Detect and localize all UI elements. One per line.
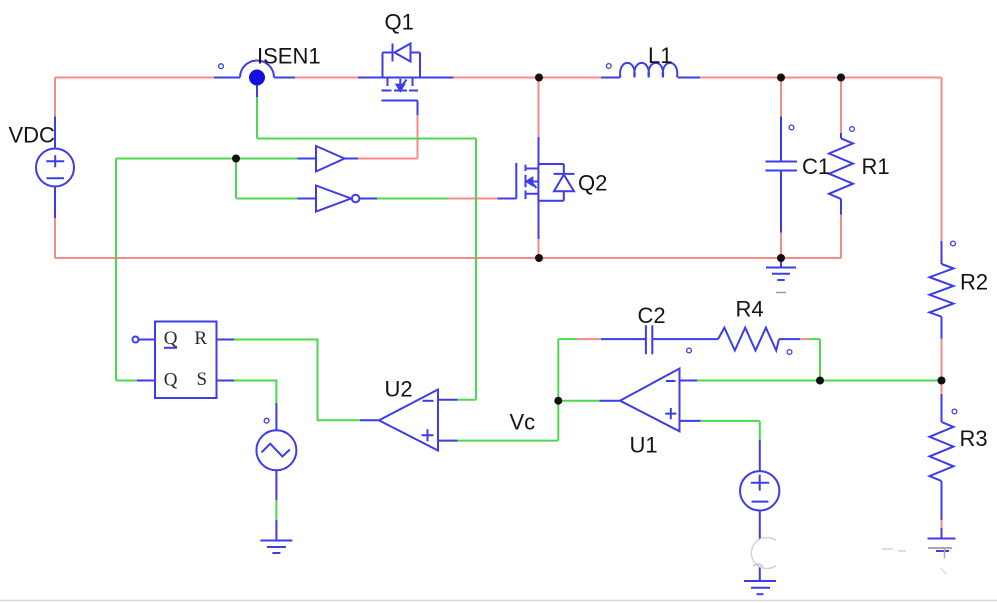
svg-text:Q2: Q2 bbox=[578, 171, 607, 196]
wire inverter input lead bbox=[298, 198, 317, 200]
wire top bus Q1 to L1 red bbox=[454, 77, 602, 79]
svg-text:R: R bbox=[194, 328, 207, 349]
svg-text:Q: Q bbox=[164, 328, 178, 349]
wire clock bottom lead bbox=[275, 470, 277, 500]
wire junction down green bbox=[235, 159, 237, 199]
capacitor C1 bbox=[766, 125, 798, 170]
wire Q2 gate lead bbox=[497, 198, 516, 200]
clock source bbox=[256, 418, 296, 470]
op-amp U1 bbox=[620, 369, 680, 432]
voltage source VDC bbox=[36, 149, 74, 187]
wire VDC top red bbox=[54, 78, 56, 117]
junction dot bottom bus C1 bbox=[777, 254, 785, 262]
wire clock to ground lead bbox=[275, 520, 277, 537]
wire R3 top lead bbox=[941, 394, 943, 422]
svg-text:U1: U1 bbox=[630, 433, 658, 458]
wire Q2 source lead bbox=[538, 201, 540, 239]
wire ISEN1 right lead bbox=[274, 77, 295, 79]
wire inverter output red bbox=[448, 198, 497, 200]
wire Q2 drain red bbox=[538, 78, 540, 138]
wire latch S lead bbox=[217, 380, 235, 382]
junction dot bottom bus Q2 bbox=[535, 254, 543, 262]
wire inverter output green bbox=[377, 198, 448, 200]
wire U1 plus green bbox=[701, 420, 760, 422]
wire C2 left lead bbox=[601, 338, 646, 340]
ground C1 bbox=[766, 258, 796, 280]
svg-text:C1: C1 bbox=[802, 154, 830, 179]
svg-text:R2: R2 bbox=[960, 270, 988, 295]
wire clock top lead bbox=[275, 403, 277, 430]
wire to latch Q pin green bbox=[116, 380, 137, 382]
inverter gate bbox=[316, 186, 359, 212]
wire VDC bottom lead bbox=[54, 187, 56, 219]
ground clock bbox=[260, 537, 292, 553]
wire R1 bottom lead bbox=[840, 199, 842, 215]
buffer gate bbox=[316, 146, 345, 172]
wire Q2 drain lead bbox=[538, 137, 540, 164]
voltage source U1 bias bbox=[740, 471, 779, 510]
wire right vertical to R2 red bbox=[941, 78, 943, 242]
wire U2 minus lead bbox=[438, 399, 458, 401]
wire latch S to clock green bbox=[234, 381, 276, 404]
junction dot top bus C1 bbox=[777, 74, 785, 82]
svg-text:Vc: Vc bbox=[510, 410, 536, 435]
wire R3 bottom lead bbox=[941, 481, 943, 520]
wire latch R to U2 green bbox=[234, 340, 360, 421]
wire ISEN1 left lead bbox=[214, 77, 240, 79]
wire R3 bottom red bbox=[941, 520, 943, 528]
wire U2 minus green bbox=[458, 399, 477, 401]
wire R4 right green bbox=[810, 338, 821, 340]
wire latch Qbar stub lead bbox=[139, 339, 156, 341]
svg-text:ISEN1: ISEN1 bbox=[257, 44, 321, 69]
wire Q1 right lead bbox=[420, 77, 454, 79]
ground R3 bbox=[928, 539, 956, 559]
wire R2 bottom red bbox=[941, 339, 943, 381]
resistor R3 bbox=[930, 409, 957, 481]
wire bias vertical green bbox=[759, 421, 761, 440]
junction dot divider node bbox=[938, 377, 946, 385]
SR latch U3 bbox=[133, 322, 217, 399]
transistor Q1 bbox=[382, 44, 421, 101]
svg-text:R1: R1 bbox=[862, 154, 890, 179]
wire top bus ISEN1 to Q1 red bbox=[295, 77, 358, 79]
wire Q1 left lead bbox=[358, 77, 383, 79]
wire buffer output to Q1 gate red bbox=[358, 158, 418, 160]
wire clock bottom green segment bbox=[275, 500, 277, 520]
wire bottom bus red bbox=[55, 257, 841, 259]
wire U2 plus lead bbox=[438, 440, 458, 442]
wire minus line to divider green bbox=[697, 380, 941, 382]
svg-text:S: S bbox=[197, 369, 208, 390]
current sensor ISEN1 bbox=[219, 61, 274, 86]
wire VDC top lead bbox=[54, 117, 56, 149]
wire U1 output green bbox=[558, 400, 599, 402]
watermark ghost circle bbox=[751, 538, 783, 569]
wire R4 right red bbox=[800, 338, 810, 340]
bottom border line bbox=[0, 600, 997, 602]
capacitor C2 bbox=[646, 325, 691, 354]
wire R4 right lead bbox=[779, 338, 800, 340]
wire VDC bottom red bbox=[54, 218, 56, 258]
wire C1 top lead bbox=[780, 117, 782, 162]
wire C1 bottom lead bbox=[780, 171, 782, 233]
junction dot feedback R4 node bbox=[816, 377, 824, 385]
resistor R1 bbox=[829, 127, 854, 199]
wire L1 right lead bbox=[678, 77, 700, 79]
wire U1 output lead bbox=[600, 400, 621, 402]
wire R1 top lead bbox=[840, 133, 842, 138]
junction dot top bus R1 bbox=[837, 74, 845, 82]
wire R1 bottom red bbox=[840, 215, 842, 259]
wire feedback up to C2 green bbox=[557, 339, 559, 401]
transistor Q2 bbox=[516, 163, 574, 201]
wire Q2 source red bbox=[538, 239, 540, 258]
wire bias top lead bbox=[759, 440, 761, 471]
wire Q1 gate lead blue bbox=[417, 101, 419, 116]
wire Q1 gate red vertical bbox=[417, 115, 419, 159]
svg-text:L1: L1 bbox=[648, 43, 672, 68]
wire R2 top lead bbox=[941, 241, 943, 264]
wire left feedback vertical green bbox=[115, 159, 117, 381]
resistor R4 bbox=[718, 328, 792, 355]
junction dot gate drive node bbox=[232, 155, 240, 163]
svg-text:U2: U2 bbox=[385, 377, 413, 402]
wire inverter output lead bbox=[360, 198, 378, 200]
wire R2 bottom lead bbox=[941, 317, 943, 339]
svg-text:Q1: Q1 bbox=[385, 10, 414, 35]
wire top bus left red bbox=[55, 77, 214, 79]
wire C1 top red bbox=[780, 78, 782, 117]
wire R4 down to minus line green bbox=[819, 339, 821, 380]
wire C1 bottom red bbox=[780, 233, 782, 259]
wire R3 top red bbox=[941, 381, 943, 395]
svg-text:Q: Q bbox=[164, 370, 178, 391]
wire latch Q lead bbox=[137, 380, 155, 382]
op-amp U2 bbox=[379, 390, 438, 451]
junction dot Vc node bbox=[554, 397, 562, 405]
wire latch R lead bbox=[217, 339, 235, 341]
wire buffer input lead bbox=[298, 158, 317, 160]
wire ISEN1 sense horizontal green bbox=[257, 138, 476, 140]
wire R1 top red bbox=[840, 78, 842, 134]
ground U1 bias bbox=[744, 581, 776, 594]
wire U1 plus lead bbox=[680, 420, 701, 422]
inductor L1 bbox=[606, 63, 677, 78]
wire bias bottom lead bbox=[759, 511, 761, 581]
wire to inverter input green bbox=[236, 198, 298, 200]
wire ISEN1 sense down green bbox=[256, 97, 258, 139]
wire L1 left lead bbox=[601, 77, 620, 79]
wire U2 output lead bbox=[360, 419, 379, 421]
wire sense vertical to U2 green bbox=[475, 139, 477, 400]
wire C2 left green bbox=[558, 338, 577, 340]
resistor R2 bbox=[930, 241, 956, 317]
wire buffer output lead bbox=[345, 158, 359, 160]
svg-text:R3: R3 bbox=[960, 426, 988, 451]
wire C2 to R4 lead bbox=[652, 338, 718, 340]
wire R3 to ground lead bbox=[941, 528, 943, 539]
wire Vc vertical green bbox=[557, 401, 559, 441]
junction dot top bus Q2 bbox=[535, 74, 543, 82]
watermark dashes bbox=[776, 293, 946, 575]
wire U1 minus lead bbox=[680, 380, 698, 382]
wire C2 left red bbox=[577, 338, 601, 340]
wire junction to buffer green bbox=[116, 158, 298, 160]
svg-text:VDC: VDC bbox=[9, 123, 56, 148]
svg-text:R4: R4 bbox=[736, 297, 764, 322]
wire top bus L1 to right corner red bbox=[700, 77, 942, 79]
wire U2 plus green bbox=[458, 440, 559, 442]
svg-text:C2: C2 bbox=[638, 303, 666, 328]
wire ISEN1 sense down lead bbox=[256, 86, 258, 98]
